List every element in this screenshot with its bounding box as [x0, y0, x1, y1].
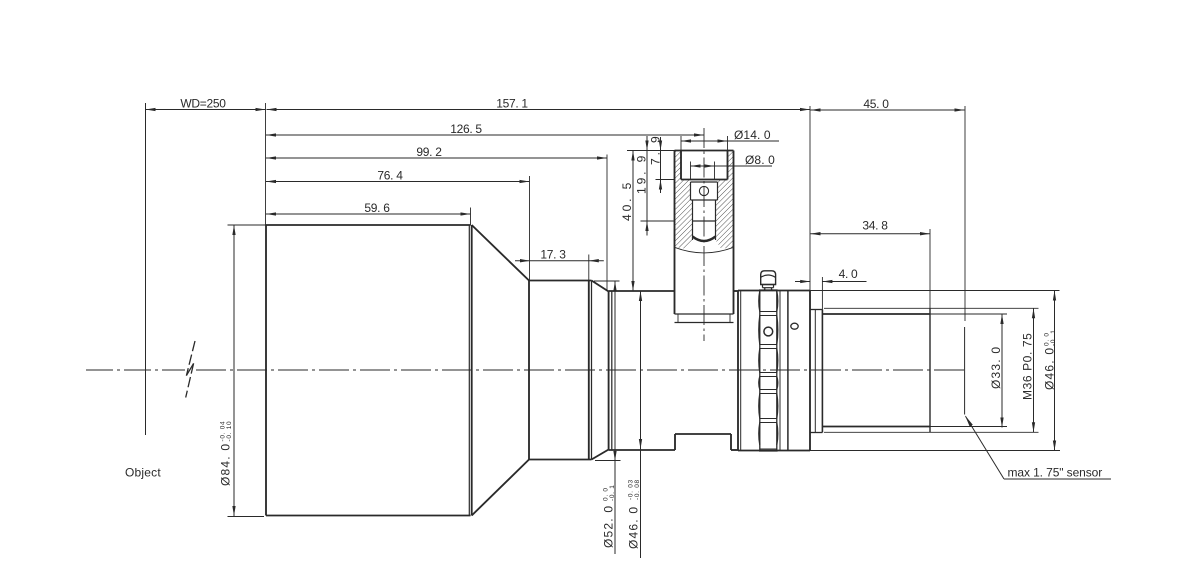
svg-text:19. 9: 19. 9 [635, 153, 649, 194]
svg-text:-0. 1: -0. 1 [1050, 329, 1057, 346]
svg-text:max 1. 75" sensor: max 1. 75" sensor [1008, 466, 1103, 480]
svg-text:Ø52. 0: Ø52. 0 [602, 505, 616, 548]
svg-text:40. 5: 40. 5 [620, 180, 634, 221]
svg-text:76. 4: 76. 4 [377, 169, 403, 183]
svg-text:-0. 1: -0. 1 [609, 484, 616, 501]
svg-text:WD=250: WD=250 [180, 97, 226, 111]
svg-text:Ø84. 0: Ø84. 0 [219, 443, 233, 486]
svg-text:157. 1: 157. 1 [496, 97, 528, 111]
svg-text:M36 P0. 75: M36 P0. 75 [1021, 333, 1035, 400]
svg-text:-0. 10: -0. 10 [226, 421, 233, 442]
svg-text:-0. 08: -0. 08 [634, 479, 641, 500]
svg-text:99. 2: 99. 2 [416, 145, 442, 159]
svg-text:Object: Object [125, 466, 161, 480]
svg-text:Ø33. 0: Ø33. 0 [989, 346, 1003, 389]
svg-text:4. 0: 4. 0 [839, 267, 858, 281]
svg-text:34. 8: 34. 8 [862, 219, 888, 233]
svg-text:17. 3: 17. 3 [540, 248, 566, 262]
svg-text:126. 5: 126. 5 [450, 122, 482, 136]
svg-text:59. 6: 59. 6 [364, 201, 390, 215]
svg-text:Ø8. 0: Ø8. 0 [745, 153, 775, 167]
svg-text:Ø46. 0: Ø46. 0 [1043, 347, 1057, 390]
svg-text:Ø46. 0: Ø46. 0 [627, 506, 641, 549]
svg-text:45. 0: 45. 0 [863, 97, 889, 111]
svg-text:Ø14. 0: Ø14. 0 [734, 128, 771, 142]
svg-text:7. 9: 7. 9 [649, 133, 663, 165]
